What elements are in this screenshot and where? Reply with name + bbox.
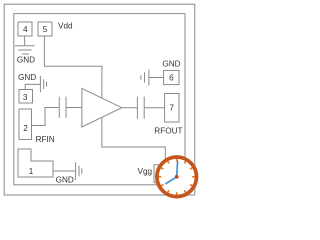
clock hour hand	[166, 177, 177, 184]
ground left of pin 6	[141, 70, 149, 86]
svg-text:5: 5	[43, 25, 48, 34]
svg-text:GND: GND	[18, 73, 36, 82]
pin 8 box (partly hidden by clock)	[154, 165, 172, 183]
ground right of pin 1	[76, 162, 82, 180]
pin 3 box	[19, 90, 33, 104]
svg-text:Vgg: Vgg	[138, 167, 153, 176]
clock icon	[155, 155, 198, 198]
svg-text:6: 6	[169, 73, 174, 82]
svg-text:4: 4	[23, 25, 28, 34]
pin 6 box	[164, 70, 179, 84]
ground right of pin 3	[40, 76, 46, 92]
svg-text:2: 2	[23, 124, 28, 133]
svg-text:1: 1	[29, 167, 34, 176]
pin 4 box	[18, 22, 32, 36]
wire pin3 to ground	[25, 84, 40, 89]
capacitor C_out plates	[137, 97, 144, 119]
wire amp bottom to Vgg pin 8	[102, 117, 165, 158]
svg-text:RFOUT: RFOUT	[154, 127, 182, 136]
pin 7 box	[165, 94, 179, 123]
wire pin6 to ground	[149, 77, 163, 79]
wire pin1 to ground	[53, 170, 75, 172]
clock ring	[157, 157, 197, 197]
wire output cap to pin 7	[145, 107, 165, 109]
svg-text:3: 3	[23, 93, 28, 102]
inner schematic border	[14, 14, 185, 185]
wire pin4 to ground	[24, 37, 26, 46]
svg-text:RFIN: RFIN	[36, 135, 55, 144]
svg-text:Vdd: Vdd	[58, 22, 73, 31]
svg-text:GND: GND	[56, 175, 74, 184]
op-amp triangle	[82, 88, 122, 127]
wire amp out to output cap	[122, 107, 137, 109]
capacitor C_in plates	[59, 97, 66, 118]
outer page frame	[4, 4, 195, 195]
svg-text:7: 7	[169, 104, 174, 113]
pin 2 box	[19, 109, 32, 140]
svg-text:GND: GND	[162, 60, 180, 69]
clock face disk	[155, 155, 198, 198]
wire pin2 RFIN to input cap	[32, 108, 59, 126]
clock hour ticks	[158, 158, 196, 196]
pin 5 box	[38, 22, 52, 36]
wire input cap to amp	[66, 107, 81, 109]
ground under pin 4	[15, 46, 35, 54]
clock center dot	[175, 175, 179, 179]
svg-text:GND: GND	[17, 56, 35, 65]
clock minute hand	[176, 161, 179, 177]
wire pin5 Vdd to amp top	[44, 37, 102, 99]
pin 1 L-shaped box	[18, 149, 53, 177]
